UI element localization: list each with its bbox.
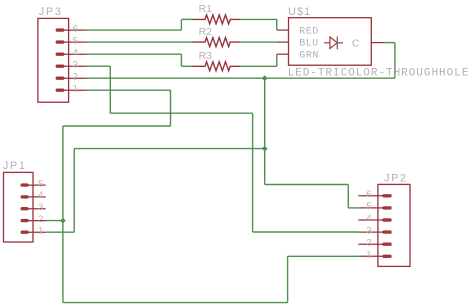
svg-text:2: 2	[73, 71, 78, 82]
svg-text:4: 4	[73, 47, 78, 58]
JP1 pin 2 pad	[22, 219, 27, 222]
U$1 RED pin stub	[277, 29, 289, 31]
wire JP1.2 horizontal	[46, 220, 63, 222]
wire R2 to BLU	[240, 41, 277, 43]
svg-text:U$1: U$1	[288, 6, 311, 18]
wire vertical up to JP2.1	[287, 256, 289, 302]
JP2 pin 2 stub	[358, 243, 384, 245]
JP2 pin 6 stub	[358, 195, 384, 197]
wire JP1.1 branch vertical x74	[73, 149, 75, 233]
junction JP1.2	[60, 218, 66, 224]
svg-text:3: 3	[73, 59, 78, 70]
wire JP3.1 vertical drop	[170, 90, 172, 126]
JP3 pin 3 stub	[63, 65, 87, 67]
resistor R3	[192, 62, 240, 71]
JP3 pin 5 pad	[57, 40, 62, 43]
diode cathode bar	[336, 36, 338, 49]
JP2 pin 1 pad	[384, 255, 390, 258]
wire R3 left vertical jog	[180, 54, 182, 66]
JP3 pin 2 pad	[57, 76, 62, 79]
JP1 pin 5 pad	[22, 183, 27, 186]
connector JP1 body	[4, 172, 34, 242]
wire to JP2.3 horizontal	[253, 231, 359, 233]
wire R3 right horizontal	[240, 65, 277, 67]
svg-text:RED: RED	[299, 26, 319, 37]
svg-text:R1: R1	[199, 3, 213, 15]
svg-text:4: 4	[38, 190, 43, 201]
resistor R1	[192, 15, 240, 24]
wire R1 left vertical jog	[180, 19, 182, 30]
svg-text:1: 1	[38, 225, 43, 236]
svg-text:2: 2	[38, 214, 43, 225]
U$1 C pin stub	[371, 42, 384, 44]
wire into JP2.1	[288, 255, 359, 257]
wire vertical drop to JP2.5	[347, 185, 349, 208]
JP3 pin 3 pad	[57, 64, 62, 67]
svg-text:1: 1	[73, 83, 78, 94]
junction JP3.2 / U$1.C net	[262, 75, 268, 81]
wire junction vertical x264	[264, 78, 266, 184]
svg-text:1: 1	[366, 250, 371, 261]
U$1 GRN pin stub	[277, 53, 289, 55]
wire JP1.1 horizontal	[46, 231, 74, 233]
svg-text:C: C	[352, 38, 359, 49]
JP2 pin 4 pad	[384, 218, 390, 221]
svg-text:4: 4	[366, 213, 371, 224]
svg-text:2: 2	[366, 237, 371, 248]
JP3 pin 6 stub	[63, 29, 87, 31]
JP2 pin 5 pad	[384, 206, 390, 209]
svg-text:5: 5	[366, 201, 371, 212]
wire JP3.1 horizontal	[87, 89, 171, 91]
wire JP3.5 to R2	[87, 41, 192, 43]
wire into R3 left	[181, 65, 192, 67]
svg-text:R2: R2	[199, 26, 213, 38]
svg-text:3: 3	[366, 225, 371, 236]
svg-text:6: 6	[366, 189, 371, 200]
U$1 BLU pin stub	[277, 41, 289, 43]
svg-text:3: 3	[38, 202, 43, 213]
diode symbol inside U$1	[324, 37, 343, 49]
wire mid horizontal y113	[110, 112, 252, 114]
JP3 pin 6 pad	[57, 28, 62, 31]
JP2 pin 1 stub	[358, 255, 384, 257]
resistor R2	[192, 38, 240, 47]
JP3 pin 1 stub	[63, 89, 87, 91]
JP2 pin 3 stub	[358, 231, 384, 233]
JP2 pin 3 pad	[384, 230, 390, 233]
JP1 pin 3 stub	[27, 208, 46, 210]
JP2 pin 6 pad	[384, 194, 390, 197]
wire R1 right horizontal	[240, 18, 277, 20]
svg-text:5: 5	[73, 35, 78, 46]
svg-text:BLU: BLU	[299, 38, 319, 49]
wire JP3.3 horizontal	[87, 65, 110, 67]
JP1 pin 2 stub	[27, 220, 46, 222]
svg-text:JP1: JP1	[3, 160, 27, 172]
svg-text:JP3: JP3	[39, 6, 63, 18]
JP3 pin 5 stub	[63, 41, 87, 43]
wire vertical up to C pin	[394, 43, 396, 79]
connector JP2 body	[378, 184, 410, 266]
JP2 pin 2 pad	[384, 242, 390, 245]
svg-text:5: 5	[38, 178, 43, 189]
svg-text:JP2: JP2	[384, 173, 408, 185]
wire into R1 left	[181, 18, 192, 20]
JP3 pin 2 stub	[63, 77, 87, 79]
wire R3 to GRN vertical jog	[276, 54, 278, 66]
wire JP3.4 horizontal	[87, 53, 181, 55]
wire bottom horizontal	[63, 302, 288, 304]
connector JP3 body	[38, 18, 69, 102]
wire horizontal y184 to JP2.5	[265, 184, 349, 186]
wire long vertical x63	[62, 126, 64, 303]
wire into JP2.5	[348, 207, 358, 209]
JP2 pin 5 stub	[358, 207, 384, 209]
JP3 pin 4 pad	[57, 53, 62, 56]
svg-text:GRN: GRN	[299, 51, 319, 62]
svg-text:R3: R3	[199, 50, 213, 62]
wire horizontal y126 back left	[63, 125, 170, 127]
JP3 pin 4 stub	[63, 53, 87, 55]
JP1 pin 3 pad	[22, 207, 27, 210]
JP3 pin 1 pad	[57, 88, 62, 91]
wire JP3.2 long horizontal	[87, 77, 395, 79]
wire JP1.1 branch horizontal y148	[74, 148, 265, 150]
wire R1 to RED vertical jog	[276, 19, 278, 30]
JP2 pin 4 stub	[358, 219, 384, 221]
junction JP1.1 branch	[262, 146, 268, 152]
svg-text:6: 6	[73, 23, 78, 34]
wire vertical x252 down	[252, 113, 254, 232]
JP1 pin 4 stub	[27, 196, 46, 198]
wire JP3.3 vertical drop	[109, 66, 111, 113]
JP1 pin 1 stub	[27, 231, 46, 233]
JP1 pin 4 pad	[22, 195, 27, 198]
JP1 pin 5 stub	[27, 184, 46, 186]
IC U$1 body	[289, 18, 372, 65]
wire JP3.6 to R1 horizontal	[87, 29, 181, 31]
wire C pin short horizontal	[384, 42, 395, 44]
JP1 pin 1 pad	[22, 230, 27, 233]
